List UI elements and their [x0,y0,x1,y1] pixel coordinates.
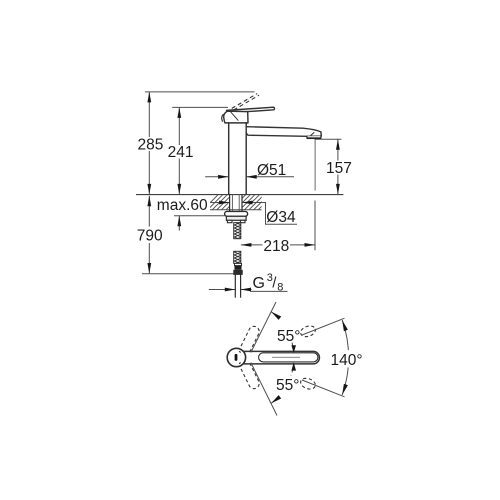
supply pipe [235,275,240,297]
lever extreme position upper dashed [237,326,259,360]
base circle ticks [239,351,240,364]
swivel ray upper 140 [302,318,345,335]
lever blade [227,107,275,113]
mounting nut [226,216,246,220]
hose-end reference line [142,273,235,275]
counter bottom line [210,209,262,211]
spout [246,127,321,137]
lever extreme position lower dashed [237,355,259,389]
svg-text:8: 8 [277,281,283,293]
outlet height extension line [315,138,342,140]
dimension 218 line [241,244,315,246]
svg-text:218: 218 [263,238,289,255]
svg-text:max.60: max.60 [157,197,208,214]
svg-text:285: 285 [138,136,164,153]
faucet column [229,123,247,194]
lever head housing [224,111,248,123]
svg-text:157: 157 [326,160,352,177]
G3/8 text shelf line [250,290,288,292]
arc 55 upper [291,339,293,348]
threaded rod [234,223,241,239]
extension line top (lever raised level) [145,91,255,93]
svg-text:Ø51: Ø51 [257,162,286,179]
svg-text:55°: 55° [277,328,300,345]
aerator [307,136,321,138]
base washer flange [225,211,248,216]
head housing lip [222,115,223,122]
head housing detail line [231,112,239,121]
spout top view inner outline [259,353,318,362]
dimension G3/8 arrows [209,289,252,291]
TOP-VIEW [227,302,366,416]
counter hatching [203,195,273,210]
svg-text:55°: 55° [276,377,299,394]
arc 55 lower [291,367,293,376]
extension line lever rest level [172,106,228,108]
flange underside extension line [174,215,225,217]
spout extreme tip lower dashed [299,376,317,391]
dimension 157 line [337,139,339,194]
water outlet line [314,140,316,191]
spout top view midline [272,356,300,358]
dimension 218 extension line [314,201,316,251]
spout extreme tip upper dashed [299,324,317,339]
swivel ray lower 140 [302,380,345,397]
svg-text:Ø34: Ø34 [266,209,296,226]
svg-text:790: 790 [137,227,163,244]
counter top line [136,194,343,196]
dimension max.60 arrow [178,216,180,231]
arc 140 [342,320,348,395]
swivel ray upper 55 [251,302,276,353]
svg-text:140°: 140° [331,352,363,369]
lever raised dashed outline [232,94,259,110]
mounting shank [230,195,242,212]
spout tip chamfer [310,132,314,136]
dimension 790 line [148,196,150,274]
svg-text:241: 241 [168,144,194,161]
dimension Ø34 leader [211,203,297,225]
base circle slot [235,354,238,361]
swivel ray lower 55 [251,363,277,416]
hose connector [235,263,242,265]
dimension 241 line [178,107,180,194]
SIDE-VIEW [136,92,352,297]
faucet base circle [227,348,245,366]
dimension 285 line [148,92,150,194]
svg-text:G: G [253,275,265,292]
dimension Ø51 arrows [205,176,294,178]
spout top view body [244,351,320,364]
